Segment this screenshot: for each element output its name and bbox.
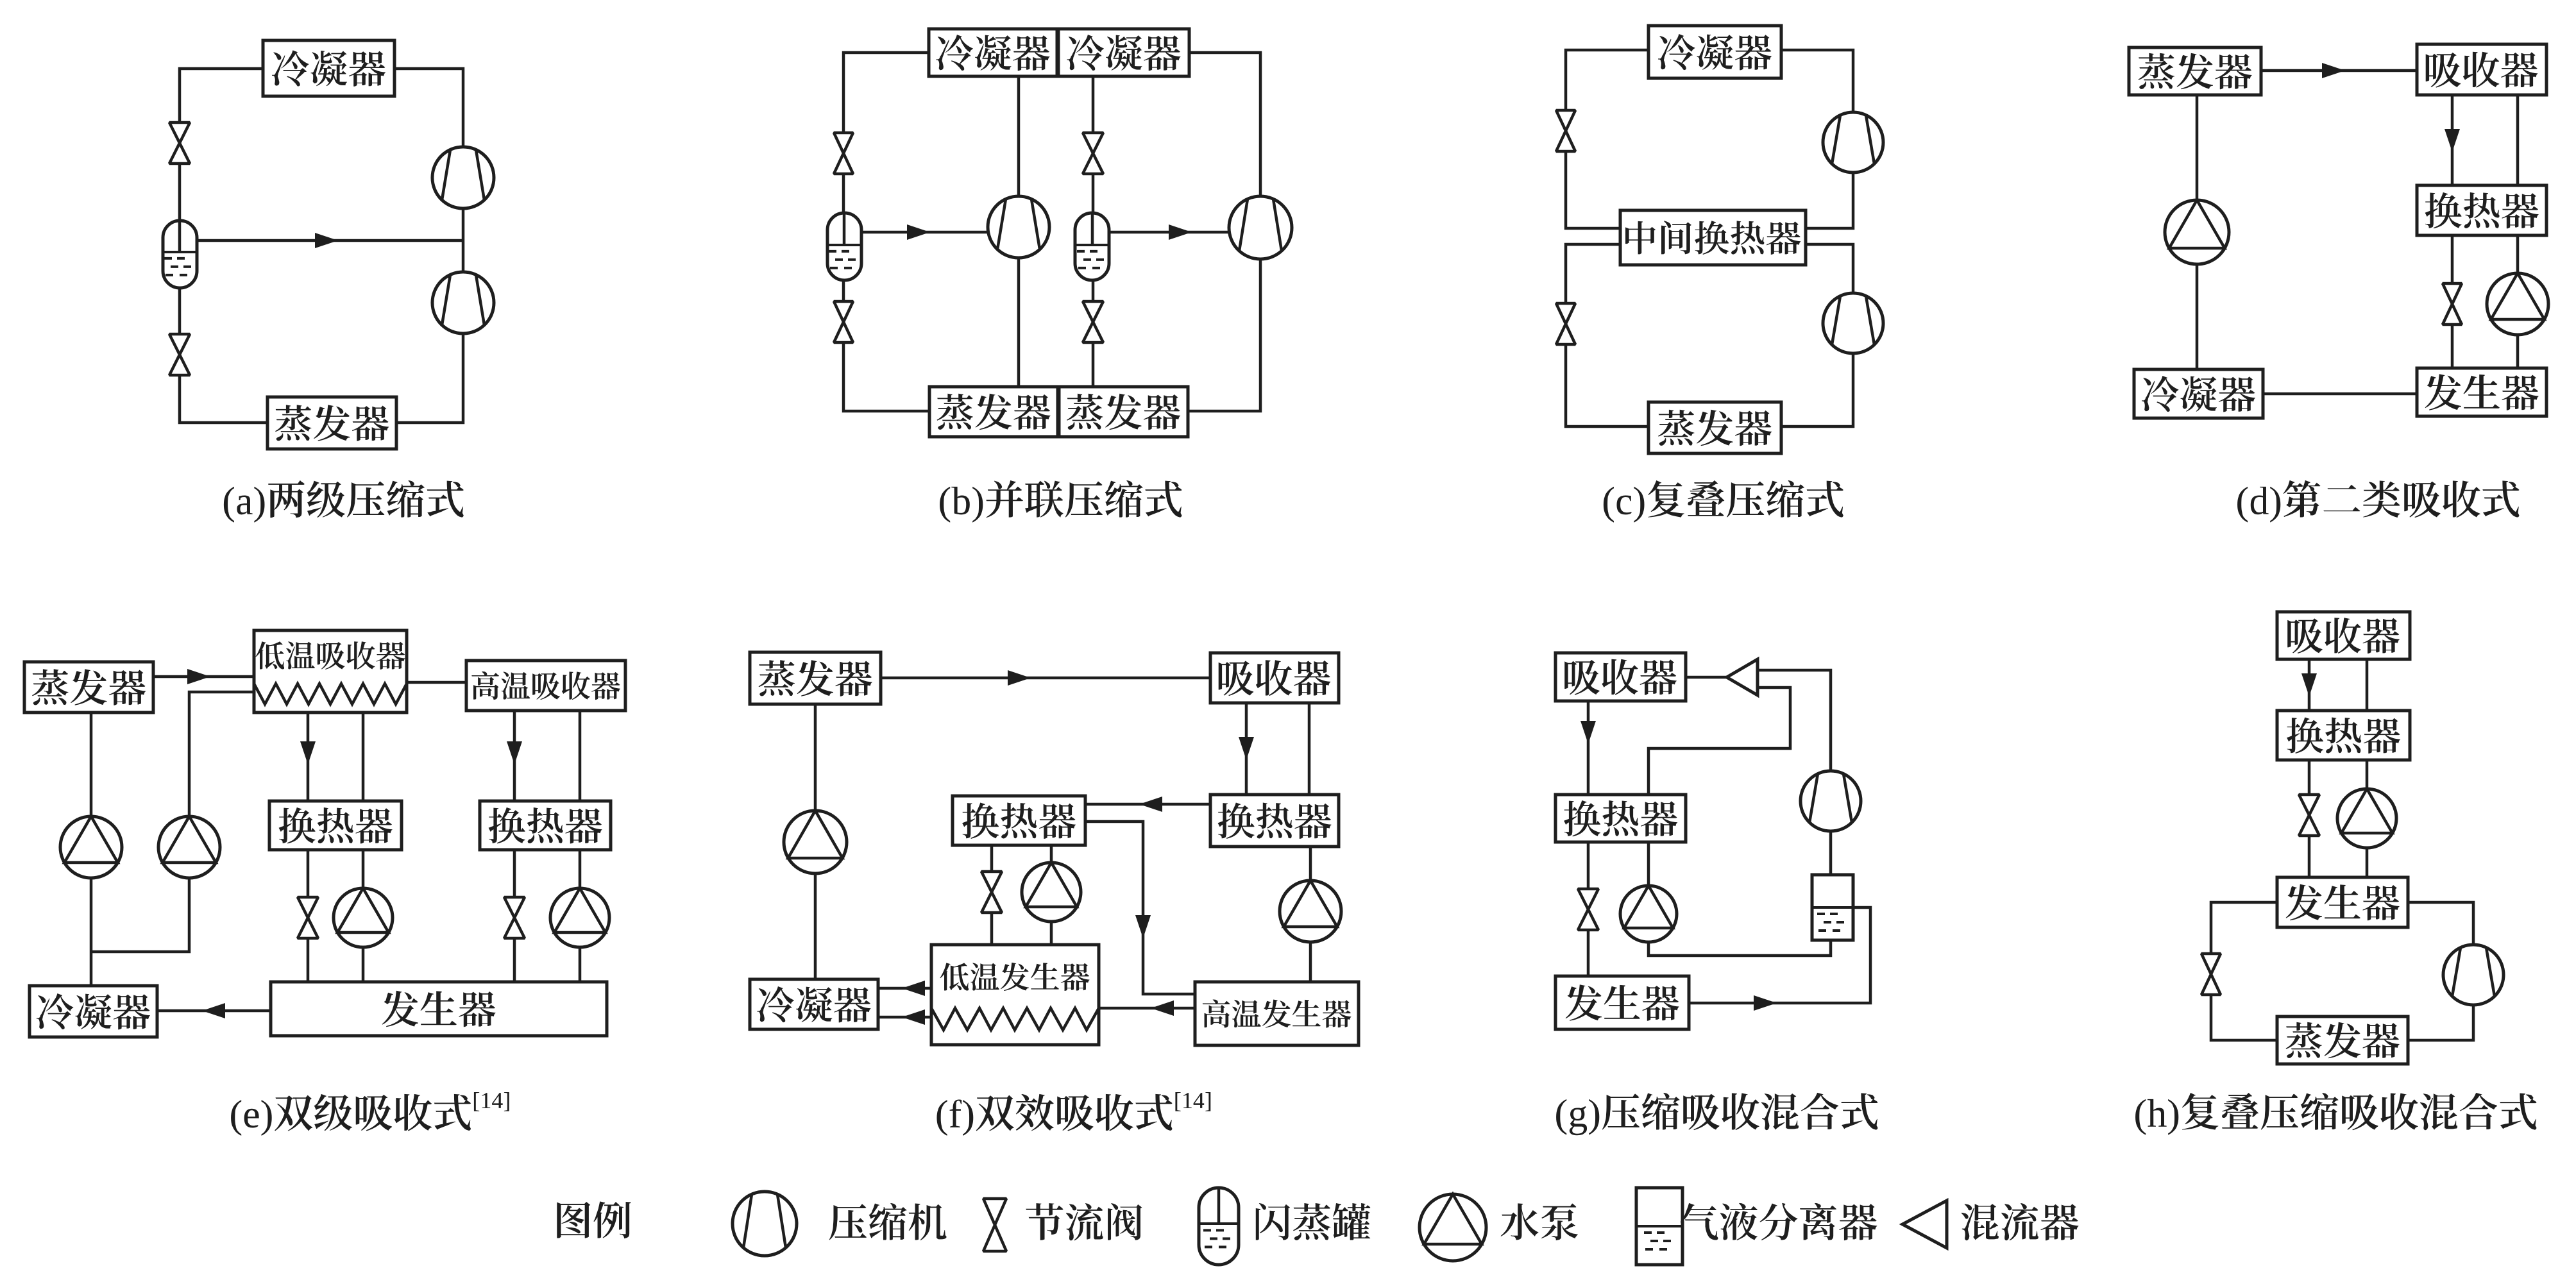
wire d absorber to hx left — [2451, 95, 2454, 185]
throttle valve h hx — [2299, 795, 2319, 836]
wire d left vertical — [2196, 95, 2199, 369]
arrow d absorber down — [2445, 129, 2460, 152]
pump e 1 — [60, 816, 122, 878]
wire b left outer loop — [843, 53, 929, 411]
box heat exchanger (e) 1 — [269, 801, 402, 850]
flash tank legend — [1199, 1188, 1239, 1265]
wire g gen to separator — [1689, 907, 1870, 1003]
wire a left loop — [180, 69, 267, 423]
pump f left — [784, 811, 847, 873]
arrow h absorber down — [2301, 673, 2317, 696]
wire d cond to gen — [2263, 392, 2417, 396]
compressor a upper — [432, 147, 494, 208]
box absorber (f) — [1210, 653, 1339, 703]
arrow e hta down — [507, 741, 522, 764]
wire f ltg to cond upper — [878, 987, 931, 990]
legend label flash tank — [1256, 1203, 1371, 1240]
box ht absorber (e) — [466, 661, 625, 711]
flash tank b 2 — [1075, 213, 1110, 280]
wire h hx down left — [2308, 760, 2311, 877]
arrow e gen out — [202, 1003, 225, 1018]
wire e gen to cond — [157, 1009, 271, 1013]
box heat exchanger (e) 2 — [480, 801, 611, 850]
arrow b line1 — [907, 224, 930, 240]
box evaporator (c) — [1648, 402, 1781, 453]
pump e 2 — [158, 816, 220, 878]
arrow f hx link — [1139, 797, 1162, 812]
wire d hx to gen left — [2451, 235, 2454, 368]
wire f hxm down right — [1050, 845, 1053, 945]
wire f evap to absorber — [881, 677, 1210, 680]
wire d absorber to hx right — [2516, 95, 2520, 185]
arrow f absorber down — [1239, 737, 1254, 760]
wire g mixer upper to comp — [1758, 670, 1831, 771]
gas-liquid separator legend — [1636, 1188, 1682, 1265]
caption (b) — [940, 480, 1182, 523]
box heat exchanger (f) mid — [953, 796, 1085, 845]
arrow a mid — [315, 233, 338, 248]
throttle valve e hx2 — [504, 897, 525, 938]
box evaporator (b) 2 — [1059, 387, 1188, 437]
pump e 3 — [334, 888, 393, 947]
caption (f) — [936, 1092, 1210, 1136]
box generator (d) — [2417, 368, 2546, 416]
legend label compressor — [829, 1203, 947, 1240]
wire b inner loop 2 — [1092, 76, 1095, 387]
wire g absorber to mixer — [1686, 676, 1727, 679]
box condenser (e) — [30, 986, 157, 1037]
box condenser (d) — [2134, 369, 2263, 418]
box evaporator (e) — [24, 662, 153, 713]
wire c lower left — [1566, 244, 1648, 426]
wire f absorber down left — [1245, 703, 1248, 795]
arrow e evap out — [187, 669, 210, 684]
wire c upper right — [1781, 50, 1853, 228]
compressor g — [1801, 771, 1861, 831]
wire b tank2 to comp2 — [1102, 231, 1230, 234]
throttle valve a lower — [169, 334, 190, 375]
arrow g gen out — [1754, 995, 1777, 1011]
box heat exchanger (h) — [2277, 711, 2410, 760]
caption (a) — [224, 480, 464, 523]
wire h left loop — [2211, 902, 2277, 1040]
wire a right loop — [394, 69, 463, 423]
throttle valve c lower — [1556, 303, 1575, 344]
heat-exchange coil lt absorber (e) — [254, 684, 407, 704]
throttle valve g — [1578, 889, 1598, 930]
box ht generator (f) — [1195, 982, 1359, 1045]
wire f left vertical — [814, 704, 817, 979]
throttle valve f hxm — [981, 872, 1002, 913]
box condenser (a) — [263, 40, 394, 96]
wire f htg to ltg — [1099, 1007, 1195, 1010]
wire a mid line — [189, 239, 463, 242]
wire e lt-absorber lower to pump2 — [91, 692, 254, 952]
box generator (g) — [1555, 976, 1689, 1029]
wire c lower right — [1781, 244, 1853, 426]
gas-liquid separator g — [1812, 875, 1853, 940]
legend label throttle valve — [1026, 1203, 1142, 1240]
arrow g absorber down — [1580, 721, 1596, 744]
pump legend — [1419, 1194, 1486, 1261]
wire e hta down right — [579, 711, 582, 801]
wire b inner line 1 — [1017, 76, 1021, 387]
throttle valve d — [2443, 283, 2462, 325]
arrow f ltg out lower — [902, 1009, 925, 1025]
arrow b line2 — [1169, 224, 1192, 240]
arrow d top — [2322, 63, 2345, 78]
arrow f ltg out upper — [902, 981, 925, 996]
box absorber (g) — [1555, 653, 1686, 701]
wire g hx down left — [1587, 842, 1590, 976]
wire e lta to hta — [407, 681, 466, 684]
wire h absorber down right — [2366, 659, 2369, 711]
compressor b 1 — [988, 196, 1049, 258]
flash tank a — [163, 221, 197, 288]
wire g mixer lower to hx — [1648, 687, 1790, 795]
wire b tank1 to comp1 — [853, 231, 988, 234]
box intermediate heat exchanger (c) — [1620, 210, 1806, 265]
caption (g) — [1556, 1093, 1877, 1135]
box absorber (h) — [2277, 612, 2410, 659]
box condenser (f) — [750, 979, 878, 1029]
wire g hx down right to separator — [1648, 842, 1831, 956]
wire d hx to gen right — [2516, 235, 2520, 368]
box condenser (b) 2 — [1058, 29, 1189, 76]
box evaporator (d) — [2129, 47, 2261, 95]
wire g absorber down — [1587, 701, 1590, 795]
throttle valve b upper 1 — [834, 133, 853, 174]
compressor c upper — [1823, 112, 1883, 173]
wire e lta down left — [307, 713, 310, 801]
box heat exchanger (f) right — [1210, 795, 1339, 847]
legend label title — [557, 1201, 631, 1238]
arrow f downflow — [1135, 915, 1151, 938]
mixer legend — [1902, 1201, 1947, 1248]
box condenser (b) 1 — [929, 29, 1057, 76]
box heat exchanger (g) — [1555, 795, 1686, 842]
wire d evap to absorber — [2261, 69, 2417, 72]
box low-temp absorber (e) — [254, 630, 407, 713]
caption (e) — [231, 1092, 509, 1136]
box generator (e) — [271, 982, 607, 1036]
caption (h) — [2135, 1093, 2536, 1135]
pump d right — [2487, 273, 2548, 335]
wire e hx2 down left — [513, 850, 516, 982]
box heat exchanger (d) — [2417, 185, 2546, 235]
box evaporator (b) 1 — [929, 387, 1058, 437]
box absorber (d) — [2417, 44, 2546, 95]
legend label separator — [1680, 1203, 1877, 1240]
heat-exchange coil lt generator (f) — [931, 1008, 1099, 1030]
throttle valve b lower 1 — [834, 301, 853, 342]
throttle valve b upper 2 — [1083, 133, 1103, 174]
caption (d) — [2237, 480, 2519, 523]
pump h — [2337, 789, 2396, 848]
pump e 4 — [550, 888, 609, 947]
compressor a lower — [432, 272, 494, 333]
throttle valve b lower 2 — [1083, 301, 1103, 342]
throttle valve h left — [2201, 954, 2221, 995]
compressor h — [2443, 945, 2504, 1005]
box condenser (c) — [1648, 26, 1781, 78]
wire g comp to separator — [1829, 831, 1833, 875]
compressor b 2 — [1229, 196, 1292, 259]
wire f ltg to cond lower — [878, 1016, 931, 1019]
throttle valve c upper — [1556, 110, 1575, 151]
pump d left — [2165, 200, 2229, 264]
flash tank b 1 — [827, 213, 861, 280]
box evaporator (a) — [267, 397, 396, 449]
wire e left vertical — [90, 713, 93, 986]
wire f absorber down right — [1308, 703, 1311, 795]
wire e hx1 down left — [307, 850, 310, 982]
wire b right outer — [1189, 53, 1260, 411]
pump g — [1620, 886, 1677, 942]
pump f right — [1280, 881, 1341, 942]
legend label mixer — [1962, 1203, 2079, 1240]
wire e hta down left — [513, 711, 516, 801]
box low-temp generator (f) — [931, 945, 1099, 1045]
caption (c) — [1604, 480, 1843, 523]
wire f hxr to hxm — [1085, 803, 1210, 806]
throttle valve legend — [983, 1199, 1006, 1251]
arrow f htg out — [1151, 1000, 1174, 1016]
wire e hx2 down right — [579, 850, 582, 982]
box generator (h) — [2277, 877, 2408, 927]
arrow f evap out — [1008, 670, 1031, 686]
wire h hx down right — [2366, 760, 2369, 877]
throttle valve a upper — [169, 122, 190, 164]
wire f hxm down left — [990, 845, 994, 945]
wire h absorber down left — [2308, 659, 2311, 711]
wire h right loop — [2408, 902, 2473, 1040]
compressor c lower — [1823, 293, 1883, 353]
throttle valve e hx1 — [298, 897, 318, 938]
arrow e lta down — [300, 741, 316, 764]
wire c upper left — [1566, 50, 1648, 228]
wire e hx1 down right — [362, 850, 365, 982]
wire e evap to lt-absorber — [153, 675, 254, 679]
pump f mid — [1022, 863, 1081, 922]
box evaporator (f) — [750, 652, 881, 704]
compressor legend — [733, 1192, 797, 1256]
wire f hxr down right — [1309, 847, 1312, 982]
wire f hxm to htg — [1085, 822, 1195, 994]
wire e lta down right — [362, 713, 365, 801]
box evaporator (h) — [2277, 1016, 2408, 1064]
mixer g — [1727, 659, 1758, 695]
legend label water pump — [1501, 1203, 1578, 1240]
